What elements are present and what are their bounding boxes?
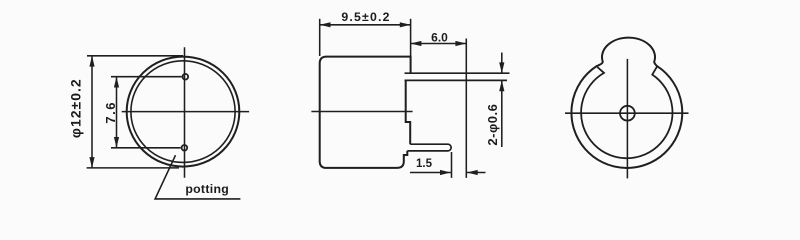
side view right edge between pins	[406, 80, 411, 144]
dim phi0.6 upper arrow line	[501, 53, 503, 74]
dim 1.5 right tail with arrow	[467, 172, 486, 174]
svg-text:9.5±0.2: 9.5±0.2	[341, 10, 390, 24]
front view inner circle	[131, 61, 235, 163]
upper pin bottom edge / phi0.6 extension	[405, 79, 508, 81]
dim phi12 arrow down	[89, 157, 94, 168]
lower pin tip extension line	[451, 152, 453, 178]
dim 6.0 arrow left	[411, 41, 422, 46]
dim 1.5 left tail with arrow	[410, 172, 451, 174]
rear view center hole	[620, 106, 635, 121]
svg-text:potting: potting	[185, 182, 229, 196]
front view vertical centerline	[184, 47, 186, 178]
side view body outline	[320, 57, 411, 168]
lower pin	[407, 144, 451, 151]
dim 7.6 extension line bottom	[111, 147, 181, 149]
front view horizontal centerline	[122, 111, 249, 113]
dim 9.5 extension left	[319, 19, 321, 56]
rear view vertical centerline	[626, 59, 628, 178]
rear view horizontal centerline	[565, 112, 689, 114]
side view seam line	[311, 111, 412, 113]
dim phi0.6 lower arrow line	[501, 80, 503, 147]
dim 7.6 extension line top	[111, 76, 182, 78]
rear view inner circle	[581, 67, 672, 158]
svg-text:2-φ0.6: 2-φ0.6	[485, 104, 500, 146]
upper pin top edge / phi0.6 extension	[405, 72, 510, 74]
dim 7.6 line	[116, 77, 118, 148]
rear view outline with top bump	[571, 38, 682, 168]
svg-text:7.6: 7.6	[103, 101, 118, 124]
dim 9.5 line	[320, 24, 411, 26]
svg-text:1.5: 1.5	[416, 158, 433, 170]
dim phi12 extension line bottom	[87, 167, 179, 169]
dim 6.0 line	[411, 43, 467, 45]
dim 9.5 extension right	[410, 19, 412, 56]
dim 7.6 arrow down	[114, 137, 119, 148]
dim phi12 extension line top	[87, 55, 183, 57]
svg-text:6.0: 6.0	[431, 31, 448, 45]
pin hole top	[183, 74, 189, 80]
dim 6.0 arrow right	[455, 41, 466, 46]
dim 9.5 arrow right	[400, 22, 411, 27]
dim phi12 line	[91, 56, 93, 168]
pin tip extension line	[465, 39, 467, 178]
dim 9.5 arrow left	[320, 22, 331, 27]
front view outer circle	[127, 57, 240, 167]
dim 7.6 arrow up	[114, 77, 119, 88]
pin hole bottom	[182, 145, 188, 151]
dim phi12 arrow up	[89, 56, 94, 67]
potting leader line	[155, 155, 240, 199]
svg-text:φ12±0.2: φ12±0.2	[68, 78, 84, 138]
